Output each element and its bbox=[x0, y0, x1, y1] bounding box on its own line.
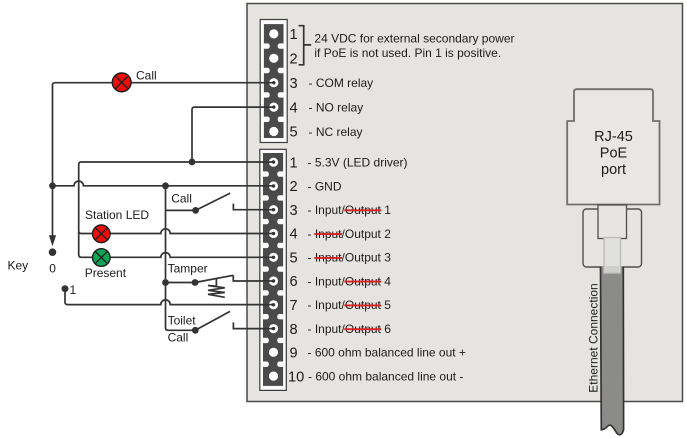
svg-text:5: 5 bbox=[290, 125, 298, 141]
junction: NO relay / 5.3V rail bbox=[189, 159, 196, 166]
svg-text:Ethernet Connection: Ethernet Connection bbox=[586, 283, 600, 392]
svg-text:if PoE is not used. Pin 1 is p: if PoE is not used. Pin 1 is positive. bbox=[314, 46, 501, 60]
switch S1 terminal to pin 3 bbox=[233, 204, 273, 210]
label pin6 Input/Output 4 bbox=[308, 274, 392, 288]
switch S3 blade bbox=[195, 311, 230, 330]
J2 pin numbers bbox=[288, 155, 304, 385]
svg-text:- COM relay: - COM relay bbox=[309, 76, 374, 90]
wire: NO relay to 5.3V rail bbox=[192, 107, 274, 162]
connector J2 (bottom 10-pin terminal) bbox=[260, 149, 287, 390]
label pin4 Input/Output 2 bbox=[308, 227, 392, 241]
wire: green LED branch to pin 5 bbox=[79, 232, 274, 257]
RJ-45 plug housing bbox=[583, 209, 642, 267]
RJ-45 jack body bbox=[567, 89, 659, 204]
switch S1 blade bbox=[196, 193, 231, 210]
svg-text:4: 4 bbox=[290, 227, 298, 243]
wire: GND (pin 2) bbox=[53, 181, 274, 186]
junction: tamper on GND bus bbox=[162, 279, 169, 286]
svg-text:5: 5 bbox=[290, 251, 298, 267]
switch S1 Call: common stub bbox=[166, 209, 196, 211]
svg-text:- NC relay: - NC relay bbox=[309, 125, 363, 139]
J1 pin numbers bbox=[290, 27, 298, 141]
svg-text:1: 1 bbox=[290, 27, 298, 43]
svg-text:Present: Present bbox=[85, 266, 127, 280]
switch S2 blade bbox=[195, 275, 233, 282]
svg-text:6: 6 bbox=[290, 274, 298, 290]
switch S2 terminal to pin 6 bbox=[233, 275, 273, 281]
key arrow bbox=[49, 186, 56, 247]
LED D1 red Call bbox=[112, 73, 131, 92]
junction: GND bus bbox=[162, 182, 169, 189]
svg-text:Tamper: Tamper bbox=[168, 262, 208, 276]
svg-text:Key: Key bbox=[8, 259, 29, 273]
node 0 (key common) bbox=[49, 248, 57, 256]
svg-text:PoE: PoE bbox=[600, 145, 628, 161]
svg-text:3: 3 bbox=[290, 203, 298, 219]
wire: 5.3V rail to station LEDs (pin 1) bbox=[79, 162, 274, 234]
label pin7 Input/Output 5 bbox=[308, 298, 392, 312]
svg-text:Station LED: Station LED bbox=[85, 208, 149, 222]
wire: key 1 to pin 7 bbox=[65, 289, 274, 305]
switch S2 Tamper: common stub bbox=[166, 282, 196, 284]
svg-text:- 5.3V (LED driver): - 5.3V (LED driver) bbox=[308, 156, 408, 170]
svg-text:RJ-45: RJ-45 bbox=[594, 129, 633, 145]
label pin8 Input/Output 6 bbox=[308, 322, 392, 336]
cable boot bbox=[604, 238, 621, 274]
svg-text:9: 9 bbox=[290, 346, 298, 362]
svg-text:Call: Call bbox=[171, 192, 192, 206]
svg-text:10: 10 bbox=[288, 369, 304, 385]
connector J1 (top 5-pin terminal) bbox=[260, 20, 287, 143]
LED D3 green Present bbox=[93, 249, 111, 267]
label RJ-45 PoE port bbox=[594, 129, 633, 178]
wire: GND bus vertical bbox=[166, 186, 196, 330]
svg-text:2: 2 bbox=[290, 179, 298, 195]
switch S3 terminal to pin 8 bbox=[233, 322, 273, 328]
svg-text:24 VDC for external secondary: 24 VDC for external secondary power bbox=[314, 31, 514, 45]
svg-text:1: 1 bbox=[290, 155, 298, 171]
svg-text:- 600 ohm balanced line out +: - 600 ohm balanced line out + bbox=[308, 346, 466, 360]
panel (device outline) bbox=[247, 4, 683, 402]
junction: key bus / GND bbox=[49, 182, 56, 189]
svg-text:2: 2 bbox=[290, 52, 298, 68]
svg-text:- 600 ohm balanced line out -: - 600 ohm balanced line out - bbox=[308, 369, 463, 383]
svg-text:0: 0 bbox=[49, 262, 56, 276]
svg-text:1: 1 bbox=[70, 283, 77, 297]
label pin3 Input/Output 1 bbox=[308, 203, 392, 217]
wire: COM relay to Call LED to key bus bbox=[53, 83, 274, 186]
svg-text:Call: Call bbox=[168, 331, 189, 345]
ethernet cable bbox=[601, 267, 624, 435]
RJ-45 plug neck bbox=[598, 205, 627, 239]
resistor R1 (tamper EOL) bbox=[208, 278, 225, 298]
svg-text:Toilet: Toilet bbox=[168, 314, 197, 328]
label pin5 Input/Output 3 bbox=[308, 251, 392, 265]
svg-text:3: 3 bbox=[290, 76, 298, 92]
svg-text:- GND: - GND bbox=[308, 179, 342, 193]
label Toilet Call bbox=[168, 314, 197, 345]
svg-text:7: 7 bbox=[290, 298, 298, 314]
svg-text:4: 4 bbox=[290, 100, 298, 116]
svg-text:- NO relay: - NO relay bbox=[309, 100, 364, 114]
svg-text:Call: Call bbox=[136, 69, 157, 83]
note 24 VDC bbox=[314, 31, 514, 59]
switch S3 Toilet Call pivot bbox=[192, 327, 199, 334]
LED D2 red Station bbox=[93, 225, 111, 243]
switch S1 pivot bbox=[192, 207, 199, 214]
node 1 (key position 1) bbox=[62, 285, 69, 292]
svg-text:8: 8 bbox=[290, 322, 298, 338]
bracket pins 1-2 bbox=[299, 26, 312, 65]
switch S2 pivot bbox=[192, 279, 199, 286]
svg-text:port: port bbox=[601, 162, 626, 178]
